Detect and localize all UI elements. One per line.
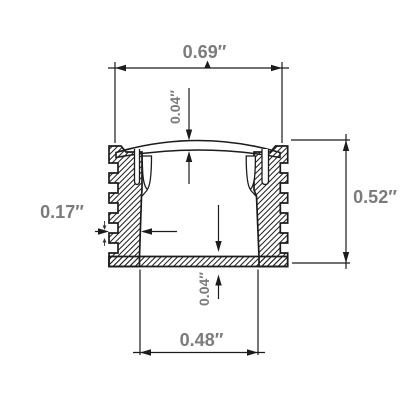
right inner step	[250, 190, 256, 197]
dim base: down arrow	[218, 205, 220, 241]
dim 0.52: extension lines	[291, 140, 350, 263]
svg-text:0.48″: 0.48″	[180, 330, 224, 350]
right wall (hatched, comb teeth on outer edge)	[254, 146, 288, 267]
left wall (hatched, comb teeth on outer edge)	[109, 146, 142, 267]
left lens slot	[135, 149, 140, 185]
dim 0.69: line	[108, 67, 289, 69]
dim 0.52: arrows	[343, 140, 349, 263]
dim base: up arrow	[218, 285, 220, 299]
small top tick	[205, 61, 211, 68]
dim 0.04 lens: lower arrow (up)	[188, 162, 190, 184]
bottom plate (hatched)	[109, 257, 288, 267]
tiny left marks	[104, 221, 106, 246]
svg-text:0.52″: 0.52″	[353, 187, 397, 207]
dim 0.04 lens: upper arrow (down)	[188, 88, 190, 130]
svg-text:0.17″: 0.17″	[40, 202, 84, 222]
right lens slot	[262, 149, 269, 185]
dim 0.48: arrows	[140, 349, 258, 355]
right lens hook	[246, 156, 255, 190]
dim 0.48: line	[133, 352, 265, 354]
svg-text:0.69″: 0.69″	[183, 42, 227, 62]
svg-text:0.04″: 0.04″	[167, 90, 183, 124]
svg-text:0.04″: 0.04″	[196, 272, 212, 306]
dim 0.52: line	[345, 134, 347, 269]
dim 0.48: extension lines	[140, 270, 258, 356]
dim 0.17: inner arrow (left-pointing)	[143, 231, 177, 233]
dim 0.69: extension lines	[115, 62, 282, 143]
left lens hook	[142, 156, 151, 190]
dim 0.17: outer arrow (right-pointing)	[95, 231, 106, 233]
dim 0.69: arrows	[115, 65, 282, 71]
lens (diffuser) curved band	[116, 141, 280, 158]
left inner step	[142, 190, 148, 197]
